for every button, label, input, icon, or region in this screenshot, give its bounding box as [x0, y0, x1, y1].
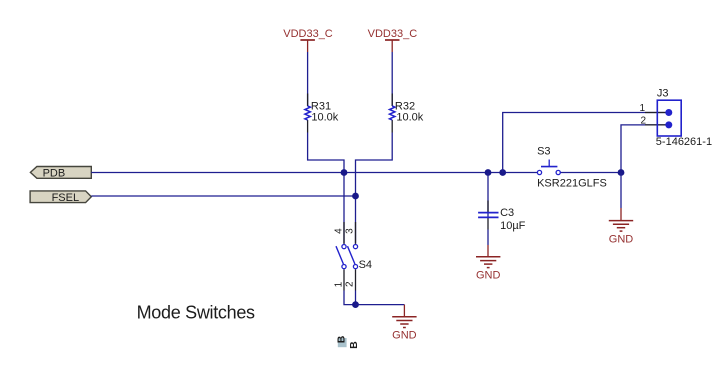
ground GND (S4)	[392, 305, 417, 342]
resistor R31 10.0k	[305, 94, 339, 133]
wire from VDD33_C to R31	[307, 52, 309, 106]
ground GND (J3)	[609, 173, 634, 246]
variant marker B (highlighted)	[336, 335, 348, 347]
svg-text:VDD33_C: VDD33_C	[283, 28, 333, 40]
svg-text:4: 4	[333, 228, 344, 234]
wire J3 pin1 to net	[503, 113, 669, 173]
switch S4 pole A (pins 4-1)	[336, 222, 346, 291]
svg-text:Mode Switches: Mode Switches	[137, 303, 255, 323]
svg-text:S4: S4	[359, 259, 372, 271]
wire C3 top	[487, 173, 489, 219]
svg-text:VDD33_C: VDD33_C	[368, 28, 418, 40]
svg-text:10.0k: 10.0k	[311, 112, 338, 124]
junction node PDB/R31	[341, 169, 348, 176]
svg-text:B: B	[348, 341, 360, 349]
junction node FSEL/R32	[352, 193, 359, 200]
svg-text:R32: R32	[395, 100, 415, 112]
junction node S3/J3/GND	[618, 169, 625, 176]
svg-text:PDB: PDB	[43, 168, 66, 180]
wire from VDD33_C to R32	[391, 52, 393, 106]
port FSEL	[30, 191, 91, 204]
wire C3 bottom	[487, 230, 489, 246]
junction node S4 common	[352, 301, 359, 308]
svg-text:2: 2	[345, 281, 356, 287]
wire R32 to FSEL net (bend)	[356, 133, 393, 197]
power symbol VDD33_C (for R31)	[283, 28, 333, 52]
svg-text:2: 2	[640, 115, 646, 126]
power symbol VDD33_C (for R32)	[368, 28, 418, 52]
svg-text:5-146261-1: 5-146261-1	[656, 136, 712, 148]
wire PDB junction down to S4 pin 4	[343, 173, 345, 244]
svg-text:GND: GND	[392, 329, 417, 341]
svg-text:GND: GND	[476, 270, 501, 282]
svg-text:1: 1	[333, 281, 344, 287]
wire R31 to PDB net (bend)	[308, 133, 344, 173]
wire J3 pin2 to net	[621, 125, 669, 173]
connector J3 5-146261-1	[639, 87, 712, 148]
wire S4 pin 1 down and over	[344, 291, 356, 305]
junction node C3	[485, 169, 492, 176]
svg-text:R31: R31	[311, 100, 331, 112]
svg-text:B: B	[336, 335, 348, 343]
switch S3 KSR221GLFS	[537, 146, 607, 190]
svg-text:10.0k: 10.0k	[396, 112, 423, 124]
svg-text:FSEL: FSEL	[52, 192, 80, 204]
svg-text:J3: J3	[657, 87, 669, 99]
wire PDB net (horizontal)	[91, 172, 537, 174]
resistor R32 10.0k	[390, 94, 424, 133]
ground GND (C3)	[476, 245, 501, 282]
svg-text:GND: GND	[609, 234, 634, 246]
svg-text:S3: S3	[537, 146, 550, 158]
switch S4 pole B (pins 3-2)	[348, 222, 358, 291]
svg-text:3: 3	[345, 228, 356, 234]
wire FSEL net (horizontal)	[91, 195, 355, 197]
svg-text:KSR221GLFS: KSR221GLFS	[537, 177, 607, 189]
port PDB	[30, 167, 91, 180]
wire S4 pin 2 down	[355, 291, 357, 305]
svg-text:1: 1	[639, 103, 645, 114]
svg-text:10µF: 10µF	[500, 220, 526, 232]
svg-text:C3: C3	[500, 207, 514, 219]
wire S4 common to GND	[356, 304, 405, 306]
wire FSEL junction down to S4 pin 3	[355, 196, 357, 244]
junction node J3 pin1 branch	[499, 169, 506, 176]
capacitor C3 10uF	[478, 201, 526, 232]
